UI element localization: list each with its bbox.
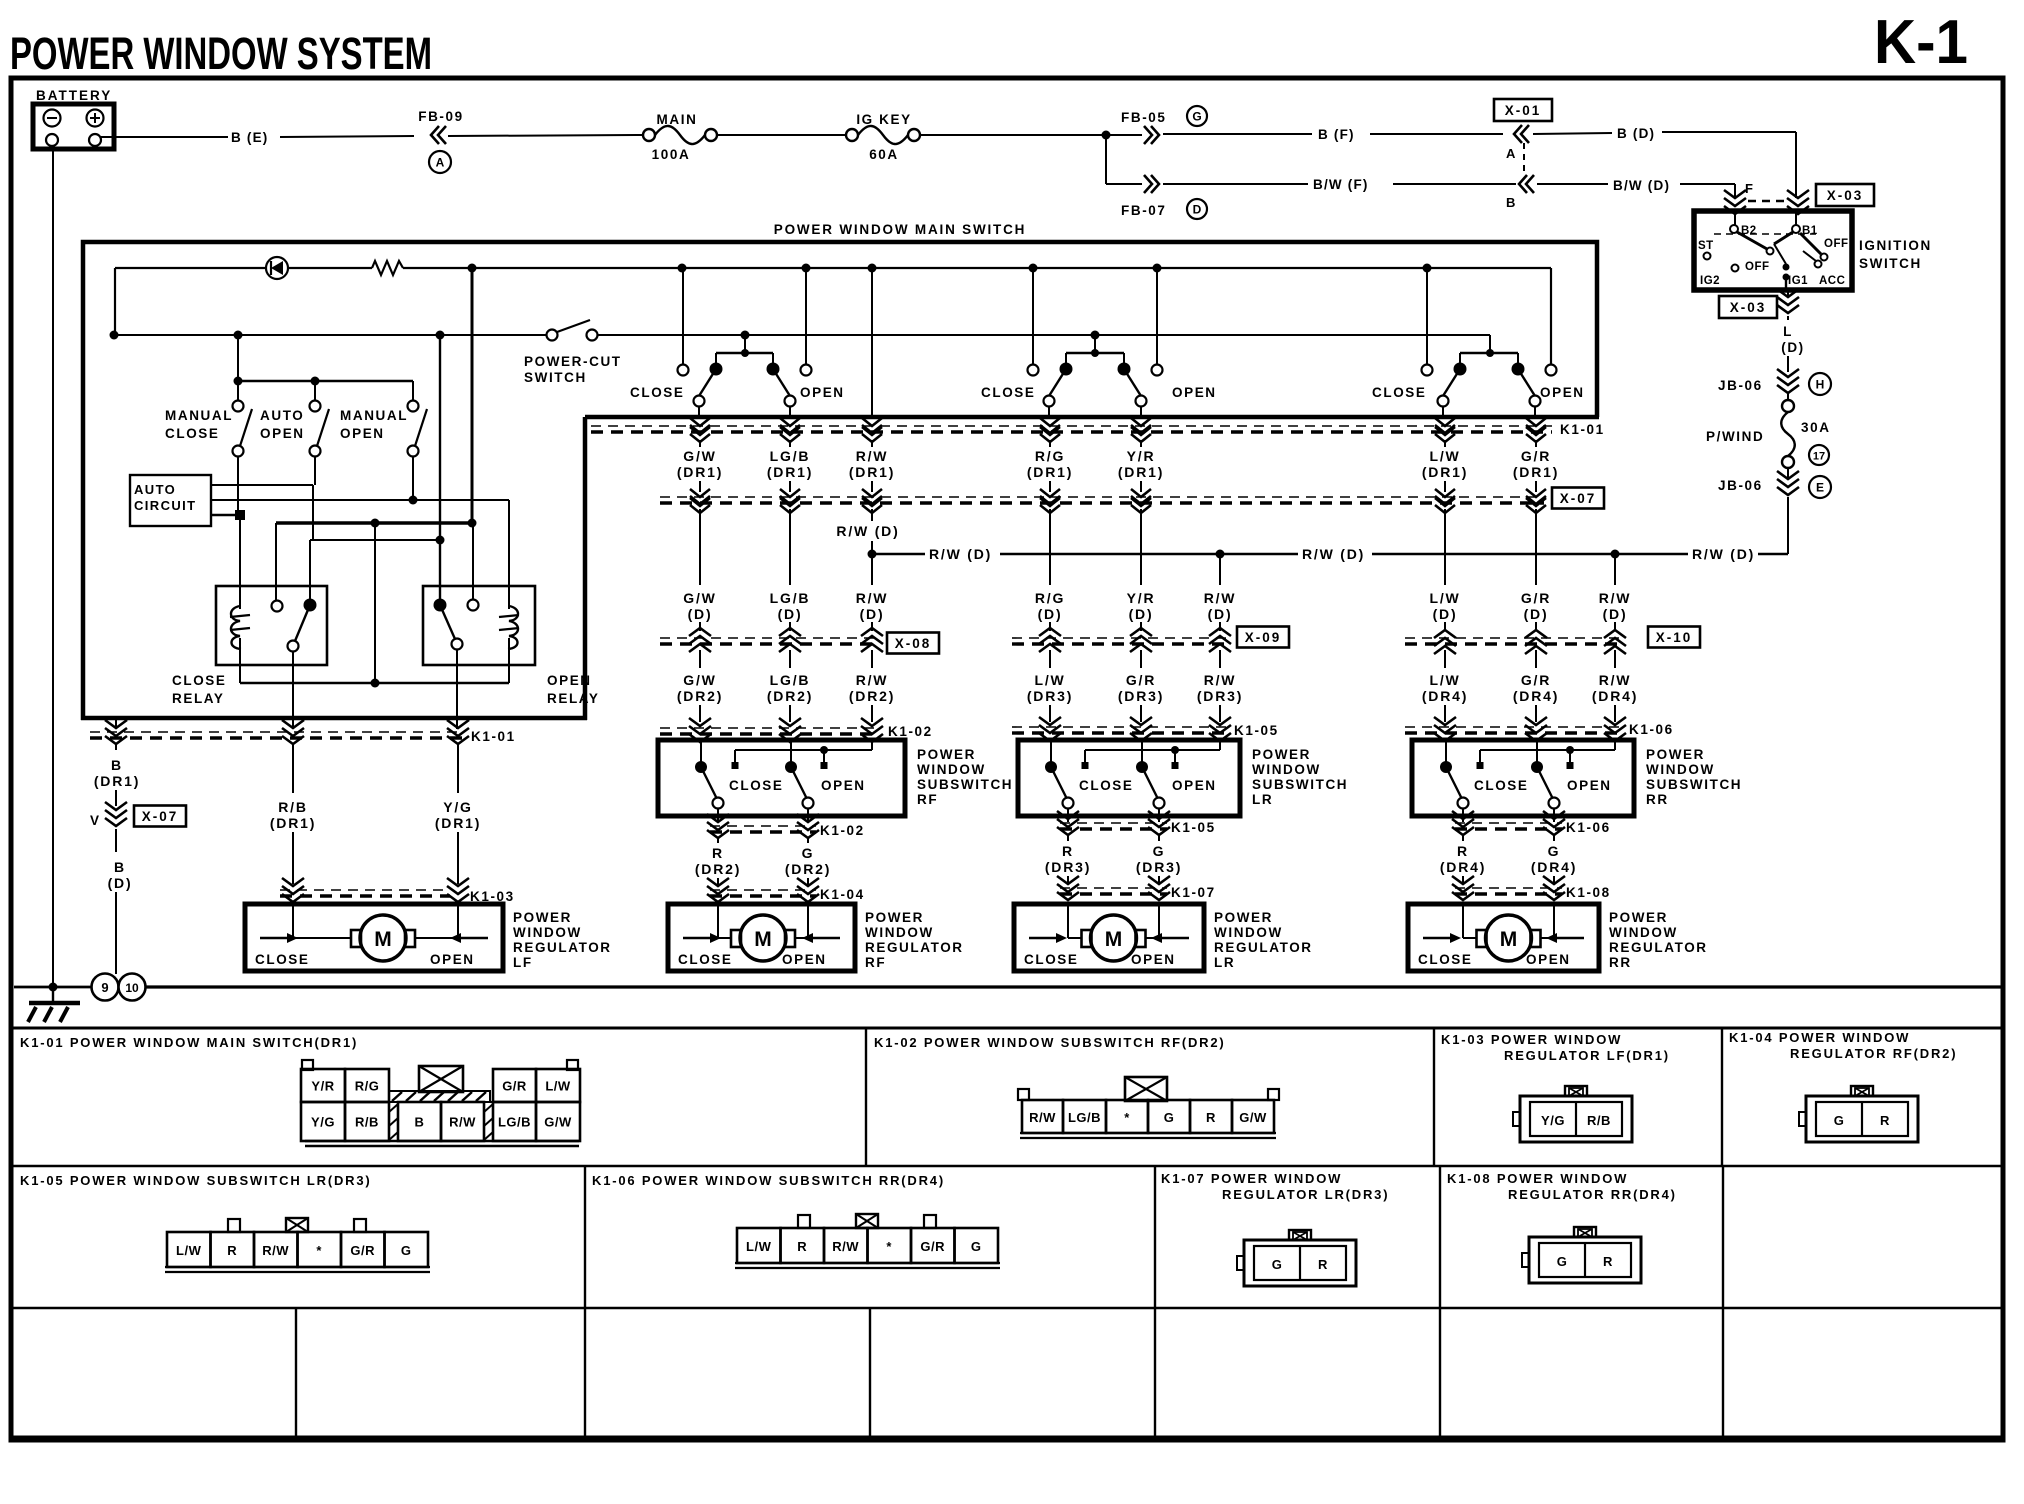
svg-text:R/B: R/B	[355, 1115, 379, 1130]
svg-text:OPEN: OPEN	[1526, 952, 1571, 967]
svg-text:E: E	[1816, 481, 1824, 495]
wire B/W(F)	[1106, 183, 1516, 185]
connector pinout K1-02	[1018, 1077, 1279, 1138]
wire auto open down	[313, 457, 315, 540]
wire R G output labels RR	[1440, 835, 1577, 884]
fuse MAIN 100A	[643, 112, 717, 162]
wire columns X-07 to lower band	[700, 509, 1536, 628]
connector pinout K1-07	[1237, 1230, 1356, 1286]
wire auto circuit stub3	[211, 510, 245, 520]
svg-text:R/W (D): R/W (D)	[1302, 546, 1365, 562]
svg-text:(DR1): (DR1)	[94, 773, 140, 789]
page id K-1	[1874, 8, 1968, 77]
svg-text:FB-09: FB-09	[418, 109, 464, 124]
svg-text:(DR1): (DR1)	[767, 464, 813, 480]
label IGNITION SWITCH	[1859, 238, 1932, 271]
svg-text:(DR2): (DR2)	[785, 861, 831, 877]
node junction B(F)/B-W(F)	[1102, 131, 1111, 185]
svg-text:WINDOW: WINDOW	[1646, 762, 1715, 777]
svg-text:Y/G: Y/G	[1541, 1113, 1565, 1128]
svg-text:K-1: K-1	[1874, 8, 1968, 77]
svg-text:G/W: G/W	[544, 1115, 572, 1130]
svg-text:R/W: R/W	[856, 672, 889, 688]
svg-text:X-10: X-10	[1656, 630, 1693, 645]
table header K1-07	[1161, 1171, 1389, 1202]
svg-text:9: 9	[101, 980, 108, 995]
svg-text:CLOSE: CLOSE	[729, 778, 784, 793]
svg-text:(D): (D)	[1208, 606, 1233, 622]
svg-text:B (E): B (E)	[231, 130, 269, 145]
wire MAIN fuse to IG KEY fuse	[717, 134, 846, 136]
svg-text:60A: 60A	[869, 147, 899, 162]
svg-text:OPEN: OPEN	[1172, 385, 1217, 400]
connector X-07 row	[660, 488, 1604, 514]
svg-text:G: G	[971, 1239, 982, 1254]
connector K1-04 row	[707, 878, 865, 902]
svg-text:L/W: L/W	[746, 1239, 772, 1254]
svg-text:K1-07: K1-07	[1171, 885, 1216, 900]
svg-text:(DR2): (DR2)	[767, 688, 813, 704]
svg-text:OPEN: OPEN	[547, 673, 592, 688]
switch group LR close/open	[981, 268, 1217, 419]
svg-text:(D): (D)	[688, 606, 713, 622]
connector X-03 above ignition switch	[1724, 181, 1874, 214]
svg-text:10: 10	[125, 981, 139, 995]
svg-text:R: R	[227, 1243, 237, 1258]
svg-text:B: B	[1506, 195, 1515, 210]
svg-text:WINDOW: WINDOW	[1252, 762, 1321, 777]
wire columns D labels	[683, 554, 1631, 631]
svg-text:OPEN: OPEN	[782, 952, 827, 967]
svg-text:X-07: X-07	[142, 809, 179, 824]
svg-text:R/B: R/B	[1587, 1113, 1611, 1128]
power window main switch box	[81, 222, 1599, 720]
label B/W(F)	[1313, 177, 1369, 192]
svg-text:X-09: X-09	[1245, 630, 1282, 645]
connector K1-06 row top	[1405, 717, 1674, 741]
svg-text:RF: RF	[917, 792, 938, 807]
svg-text:(D): (D)	[1781, 340, 1805, 355]
svg-text:X-07: X-07	[1560, 491, 1597, 506]
svg-text:AUTO: AUTO	[260, 408, 304, 423]
connector K1-08 row	[1452, 876, 1611, 900]
svg-text:X-08: X-08	[895, 636, 932, 651]
svg-text:R/W: R/W	[856, 448, 889, 464]
svg-text:R: R	[712, 845, 724, 861]
connector FB-05 with pin G	[1121, 106, 1207, 144]
svg-text:B: B	[415, 1115, 425, 1130]
wire R G output labels LR	[1045, 835, 1182, 884]
svg-text:(DR4): (DR4)	[1531, 859, 1577, 875]
svg-text:A: A	[1506, 146, 1516, 161]
svg-text:R/W (D): R/W (D)	[1692, 546, 1755, 562]
svg-text:POWER: POWER	[917, 747, 976, 762]
svg-text:POWER: POWER	[865, 910, 924, 925]
svg-text:JB-06: JB-06	[1718, 478, 1763, 493]
svg-text:G: G	[401, 1243, 412, 1258]
svg-text:Y/R: Y/R	[1127, 448, 1156, 464]
wire B/W(D) to ignition switch	[1537, 184, 1735, 198]
svg-text:G/W: G/W	[683, 590, 716, 606]
label B(E)	[231, 130, 269, 145]
svg-text:CLOSE: CLOSE	[165, 426, 220, 441]
svg-text:K1-04 POWER WINDOW: K1-04 POWER WINDOW	[1729, 1030, 1910, 1045]
svg-text:K1-06: K1-06	[1566, 820, 1611, 835]
svg-text:(D): (D)	[1129, 606, 1154, 622]
switch group RF close/open	[630, 268, 845, 419]
svg-text:CIRCUIT: CIRCUIT	[134, 498, 197, 513]
svg-text:CLOSE: CLOSE	[981, 385, 1036, 400]
svg-text:POWER: POWER	[1646, 747, 1705, 762]
svg-text:LG/B: LG/B	[1068, 1110, 1101, 1125]
svg-text:(DR1): (DR1)	[1118, 464, 1164, 480]
svg-text:SWITCH: SWITCH	[1859, 256, 1922, 271]
svg-text:B: B	[111, 757, 123, 773]
wire B(DR1) column	[94, 718, 140, 806]
svg-text:K1-02: K1-02	[888, 724, 933, 739]
svg-text:Y/R: Y/R	[311, 1079, 334, 1094]
power window subswitch LR	[1018, 740, 1348, 822]
connector FB-07 with pin D	[1121, 175, 1207, 219]
svg-text:WINDOW: WINDOW	[917, 762, 986, 777]
svg-text:K1-05: K1-05	[1234, 723, 1279, 738]
svg-text:RELAY: RELAY	[172, 691, 225, 706]
svg-text:G: G	[802, 845, 815, 861]
connector X-09 row	[1012, 627, 1289, 653]
svg-text:(DR3): (DR3)	[1045, 859, 1091, 875]
svg-text:REGULATOR RR(DR4): REGULATOR RR(DR4)	[1508, 1187, 1677, 1202]
svg-text:K1-03 POWER WINDOW: K1-03 POWER WINDOW	[1441, 1032, 1622, 1047]
svg-text:CLOSE: CLOSE	[1418, 952, 1473, 967]
svg-text:SUBSWITCH: SUBSWITCH	[1646, 777, 1742, 792]
svg-text:K1-05 POWER WINDOW SUBSWITCH L: K1-05 POWER WINDOW SUBSWITCH LR(DR3)	[20, 1173, 372, 1188]
ignition switch	[1694, 211, 1852, 290]
svg-text:RF: RF	[865, 955, 886, 970]
ground symbol	[28, 987, 80, 1022]
svg-text:D: D	[1193, 203, 1202, 217]
svg-text:R: R	[1603, 1254, 1613, 1269]
connector X-08 row	[660, 628, 939, 654]
svg-text:RELAY: RELAY	[547, 691, 600, 706]
battery	[33, 88, 114, 149]
svg-text:RR: RR	[1609, 955, 1632, 970]
svg-text:CLOSE: CLOSE	[678, 952, 733, 967]
svg-text:WINDOW: WINDOW	[1214, 925, 1283, 940]
table header K1-05	[20, 1173, 372, 1188]
svg-text:G/R: G/R	[1521, 448, 1551, 464]
wire battery negative to ground bus	[52, 146, 54, 987]
svg-text:G/R: G/R	[1521, 590, 1551, 606]
svg-text:OPEN: OPEN	[1540, 385, 1585, 400]
svg-text:(DR4): (DR4)	[1422, 688, 1468, 704]
svg-text:REGULATOR: REGULATOR	[865, 940, 964, 955]
svg-text:CLOSE: CLOSE	[1474, 778, 1529, 793]
connector K1-06 row bottom	[1452, 811, 1611, 835]
svg-text:R/W: R/W	[1599, 672, 1632, 688]
svg-text:R/W: R/W	[1599, 590, 1632, 606]
switch MANUAL CLOSE	[165, 401, 252, 457]
table header K1-01	[20, 1035, 358, 1050]
wire columns switch outputs with DR1 labels	[677, 440, 1559, 492]
wire open relay coil feed	[508, 500, 510, 609]
svg-text:H: H	[1816, 378, 1825, 392]
svg-text:G: G	[1548, 843, 1561, 859]
svg-text:POWER: POWER	[1252, 747, 1311, 762]
power-cut switch	[524, 320, 622, 385]
svg-text:K1-06 POWER WINDOW SUBSWITCH R: K1-06 POWER WINDOW SUBSWITCH RR(DR4)	[592, 1173, 945, 1188]
svg-text:IG KEY: IG KEY	[856, 112, 911, 127]
svg-text:IG2: IG2	[1700, 275, 1720, 287]
svg-text:MAIN: MAIN	[657, 112, 698, 127]
svg-text:L/W: L/W	[1429, 590, 1460, 606]
svg-text:OPEN: OPEN	[821, 778, 866, 793]
svg-text:REGULATOR LF(DR1): REGULATOR LF(DR1)	[1504, 1048, 1670, 1063]
svg-text:WINDOW: WINDOW	[865, 925, 934, 940]
svg-text:R: R	[1880, 1113, 1890, 1128]
svg-text:(D): (D)	[1433, 606, 1458, 622]
svg-text:*: *	[886, 1239, 892, 1254]
svg-text:LR: LR	[1214, 955, 1235, 970]
svg-text:P/WIND: P/WIND	[1706, 429, 1764, 444]
wire B(D) to ignition switch	[1533, 132, 1796, 198]
svg-text:R/G: R/G	[1035, 448, 1065, 464]
svg-text:LG/B: LG/B	[770, 672, 811, 688]
label B/W(D)	[1613, 178, 1670, 193]
wire columns DR2 DR3 DR4 labels	[677, 650, 1638, 722]
switch AUTO OPEN	[260, 401, 329, 457]
svg-text:Y/G: Y/G	[311, 1115, 335, 1130]
svg-text:G: G	[1192, 110, 1201, 124]
svg-text:L/W: L/W	[1034, 672, 1065, 688]
svg-text:K1-08 POWER WINDOW: K1-08 POWER WINDOW	[1447, 1171, 1628, 1186]
svg-text:R/G: R/G	[355, 1079, 380, 1094]
switch group RR close/open	[1372, 268, 1585, 419]
svg-text:REGULATOR: REGULATOR	[1214, 940, 1313, 955]
connector K1-05 row top	[1012, 717, 1279, 741]
svg-text:G: G	[1834, 1113, 1845, 1128]
svg-text:B (F): B (F)	[1318, 127, 1355, 142]
svg-text:R: R	[1318, 1257, 1328, 1272]
svg-text:K1-08: K1-08	[1566, 885, 1611, 900]
svg-text:REGULATOR LR(DR3): REGULATOR LR(DR3)	[1222, 1187, 1389, 1202]
svg-text:R/W: R/W	[449, 1115, 476, 1130]
svg-text:R: R	[1457, 843, 1469, 859]
svg-text:X-01: X-01	[1505, 103, 1542, 118]
svg-text:G: G	[1272, 1257, 1283, 1272]
svg-text:CLOSE: CLOSE	[1372, 385, 1427, 400]
svg-text:B: B	[114, 859, 126, 875]
svg-text:BATTERY: BATTERY	[36, 88, 112, 103]
connector JB-06 pin E	[1718, 471, 1831, 498]
wire R/W DR1 column top	[871, 268, 873, 419]
svg-text:(DR4): (DR4)	[1513, 688, 1559, 704]
svg-text:WINDOW: WINDOW	[513, 925, 582, 940]
label L(D)	[1781, 324, 1805, 355]
svg-text:CLOSE: CLOSE	[1024, 952, 1079, 967]
svg-text:*: *	[316, 1243, 322, 1258]
connector pinout K1-03	[1513, 1086, 1632, 1142]
connector JB-06 pin H	[1718, 369, 1831, 395]
svg-text:Y/G: Y/G	[443, 799, 473, 815]
svg-text:K1-06: K1-06	[1629, 722, 1674, 737]
svg-text:(DR3): (DR3)	[1136, 859, 1182, 875]
svg-text:OPEN: OPEN	[430, 952, 475, 967]
svg-text:POWER: POWER	[1609, 910, 1668, 925]
svg-text:(DR2): (DR2)	[695, 861, 741, 877]
wire internal bus with diode and resistor	[115, 268, 1551, 364]
svg-text:LG/B: LG/B	[770, 448, 811, 464]
label R/W (D) bus inline 1	[929, 546, 992, 562]
svg-text:G/R: G/R	[350, 1243, 375, 1258]
svg-text:R/W: R/W	[1204, 590, 1237, 606]
svg-text:IGNITION: IGNITION	[1859, 238, 1932, 253]
svg-text:MANUAL: MANUAL	[165, 408, 233, 423]
svg-text:JB-06: JB-06	[1718, 378, 1763, 393]
svg-text:FB-07: FB-07	[1121, 203, 1167, 218]
svg-text:G/R: G/R	[1521, 672, 1551, 688]
svg-text:(DR2): (DR2)	[677, 688, 723, 704]
wire relay line1 thick	[276, 519, 477, 602]
connector pinout K1-04	[1799, 1086, 1918, 1142]
connector pinout K1-05	[165, 1218, 430, 1272]
fuse P/WIND 30A circuit 17	[1706, 394, 1831, 468]
svg-text:K1-01 POWER WINDOW MAIN SWITCH: K1-01 POWER WINDOW MAIN SWITCH(DR1)	[20, 1035, 358, 1050]
svg-text:LF: LF	[513, 955, 533, 970]
connector pinout K1-08	[1522, 1227, 1641, 1283]
connector K1-01 row left	[90, 720, 516, 744]
svg-text:AUTO: AUTO	[134, 482, 176, 497]
table header K1-03	[1441, 1032, 1670, 1063]
wire internal bus 335	[110, 331, 1491, 357]
wire R/W(D) bus horizontal	[868, 550, 1789, 559]
connector K1-02 row top	[660, 718, 933, 742]
svg-text:K1-01: K1-01	[471, 729, 516, 744]
svg-text:(DR3): (DR3)	[1118, 688, 1164, 704]
svg-text:B1: B1	[1802, 225, 1818, 237]
svg-text:OPEN: OPEN	[1131, 952, 1176, 967]
svg-text:M: M	[374, 928, 392, 951]
svg-text:G/W: G/W	[683, 672, 716, 688]
svg-text:R/W (D): R/W (D)	[836, 523, 899, 539]
connector K1-03 row	[280, 878, 515, 904]
svg-text:R/W: R/W	[856, 590, 889, 606]
svg-text:REGULATOR: REGULATOR	[1609, 940, 1708, 955]
power window regulator RR with motor M	[1408, 904, 1708, 971]
wire JB-06 down to R/W(D) bus	[1787, 468, 1789, 554]
svg-text:CLOSE: CLOSE	[1079, 778, 1134, 793]
svg-text:IG1: IG1	[1788, 275, 1808, 287]
svg-text:OPEN: OPEN	[1172, 778, 1217, 793]
svg-text:(D): (D)	[778, 606, 803, 622]
svg-text:K1-04: K1-04	[820, 887, 865, 902]
label R/W (D) bus inline 2	[1302, 546, 1365, 562]
svg-text:G/R: G/R	[1126, 672, 1156, 688]
svg-text:LR: LR	[1252, 792, 1273, 807]
svg-text:RR: RR	[1646, 792, 1669, 807]
svg-text:LG/B: LG/B	[770, 590, 811, 606]
connector K1-05 row bottom	[1057, 811, 1216, 835]
svg-text:(D): (D)	[860, 606, 885, 622]
svg-text:L/W: L/W	[1429, 448, 1460, 464]
title POWER WINDOW SYSTEM	[10, 28, 432, 79]
svg-text:B/W (F): B/W (F)	[1313, 177, 1369, 192]
wire coil bottom link	[240, 523, 509, 688]
label B(F)	[1318, 127, 1355, 142]
svg-text:OFF: OFF	[1824, 238, 1849, 250]
wire auto circuit stub2	[211, 496, 509, 505]
svg-text:(D): (D)	[1038, 606, 1063, 622]
svg-text:30A: 30A	[1801, 420, 1831, 435]
label R/W (D) bus inline 3	[1692, 546, 1755, 562]
table header K1-04	[1729, 1030, 1957, 1061]
connector FB-09 with pin A	[418, 109, 464, 173]
svg-text:G/R: G/R	[502, 1079, 527, 1094]
svg-text:(DR3): (DR3)	[1197, 688, 1243, 704]
svg-text:OPEN: OPEN	[1567, 778, 1612, 793]
svg-text:R: R	[797, 1239, 807, 1254]
connector X-01 pins A and B	[1494, 99, 1552, 210]
svg-text:L/W: L/W	[176, 1243, 202, 1258]
svg-text:G: G	[1164, 1110, 1175, 1125]
table header K1-06	[592, 1173, 945, 1188]
resistor R1	[372, 261, 403, 275]
wire L(D) ignition to JB-06	[1787, 290, 1789, 372]
connector X-07 pin V on B wire	[90, 802, 186, 828]
svg-text:R/W: R/W	[1029, 1110, 1056, 1125]
svg-text:X-03: X-03	[1730, 300, 1767, 315]
wire B(F)	[1106, 134, 1503, 135]
label R/W (D) above bus	[836, 523, 899, 539]
svg-text:POWER: POWER	[513, 910, 572, 925]
svg-text:MANUAL: MANUAL	[340, 408, 408, 423]
svg-text:M: M	[1105, 928, 1123, 951]
svg-text:REGULATOR: REGULATOR	[513, 940, 612, 955]
svg-text:OFF: OFF	[1745, 261, 1770, 273]
svg-text:K1-05: K1-05	[1171, 820, 1216, 835]
connector K1-02 row bottom	[707, 814, 865, 838]
wire R/B(DR1) column	[270, 651, 316, 884]
wire Y/G(DR1) column	[435, 649, 481, 884]
svg-text:X-03: X-03	[1827, 188, 1864, 203]
connector pinout K1-06	[735, 1214, 1000, 1268]
svg-text:G: G	[1153, 843, 1166, 859]
svg-text:LG/B: LG/B	[498, 1115, 531, 1130]
svg-text:G/R: G/R	[920, 1239, 945, 1254]
svg-text:(DR4): (DR4)	[1440, 859, 1486, 875]
svg-text:K1-02: K1-02	[820, 823, 865, 838]
svg-text:F: F	[1745, 181, 1753, 196]
svg-text:(DR1): (DR1)	[270, 815, 316, 831]
svg-text:SWITCH: SWITCH	[524, 370, 587, 385]
svg-text:WINDOW: WINDOW	[1609, 925, 1678, 940]
svg-text:R/W: R/W	[1204, 672, 1237, 688]
wire auto circuit stub1	[211, 484, 313, 486]
svg-text:ACC: ACC	[1819, 275, 1845, 287]
svg-text:R: R	[1206, 1110, 1216, 1125]
wire B(E) battery to MAIN fuse	[101, 135, 643, 137]
wire manual close to close relay coil	[238, 457, 240, 609]
svg-text:G/W: G/W	[1239, 1110, 1267, 1125]
power window subswitch RR	[1412, 740, 1742, 822]
switch MANUAL OPEN	[340, 401, 427, 457]
wire relay line3	[310, 536, 445, 601]
svg-text:SUBSWITCH: SUBSWITCH	[917, 777, 1013, 792]
svg-text:POWER-CUT: POWER-CUT	[524, 354, 622, 369]
svg-text:R: R	[1062, 843, 1074, 859]
svg-text:B (D): B (D)	[1617, 126, 1655, 141]
svg-text:R/G: R/G	[1035, 590, 1065, 606]
svg-text:B/W (D): B/W (D)	[1613, 178, 1670, 193]
